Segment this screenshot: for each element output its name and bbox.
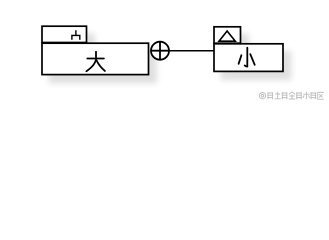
- containment connector circle-plus: [151, 42, 169, 60]
- char 技: [296, 92, 302, 99]
- package P2 (小): [214, 27, 283, 72]
- char 术: [303, 92, 310, 99]
- char 掘: [282, 92, 288, 99]
- package P1 tab icon: [72, 30, 80, 40]
- package P2 body: [214, 44, 283, 72]
- package P2 tab: [214, 27, 241, 43]
- char 稀: [267, 92, 273, 99]
- label 小: [239, 48, 255, 67]
- package P2 tab icon (triangle): [219, 31, 235, 41]
- package P1 body: [42, 43, 149, 74]
- label 大: [86, 52, 105, 71]
- package P1 tab: [42, 26, 87, 42]
- package P1 (大): [42, 26, 149, 74]
- char 社: [310, 92, 316, 99]
- char 金: [289, 92, 295, 99]
- wire connector to P2: [168, 50, 214, 52]
- char 区: [318, 92, 324, 99]
- watermark @稀土掘金技术社区: [259, 93, 265, 99]
- char 土: [275, 92, 281, 99]
